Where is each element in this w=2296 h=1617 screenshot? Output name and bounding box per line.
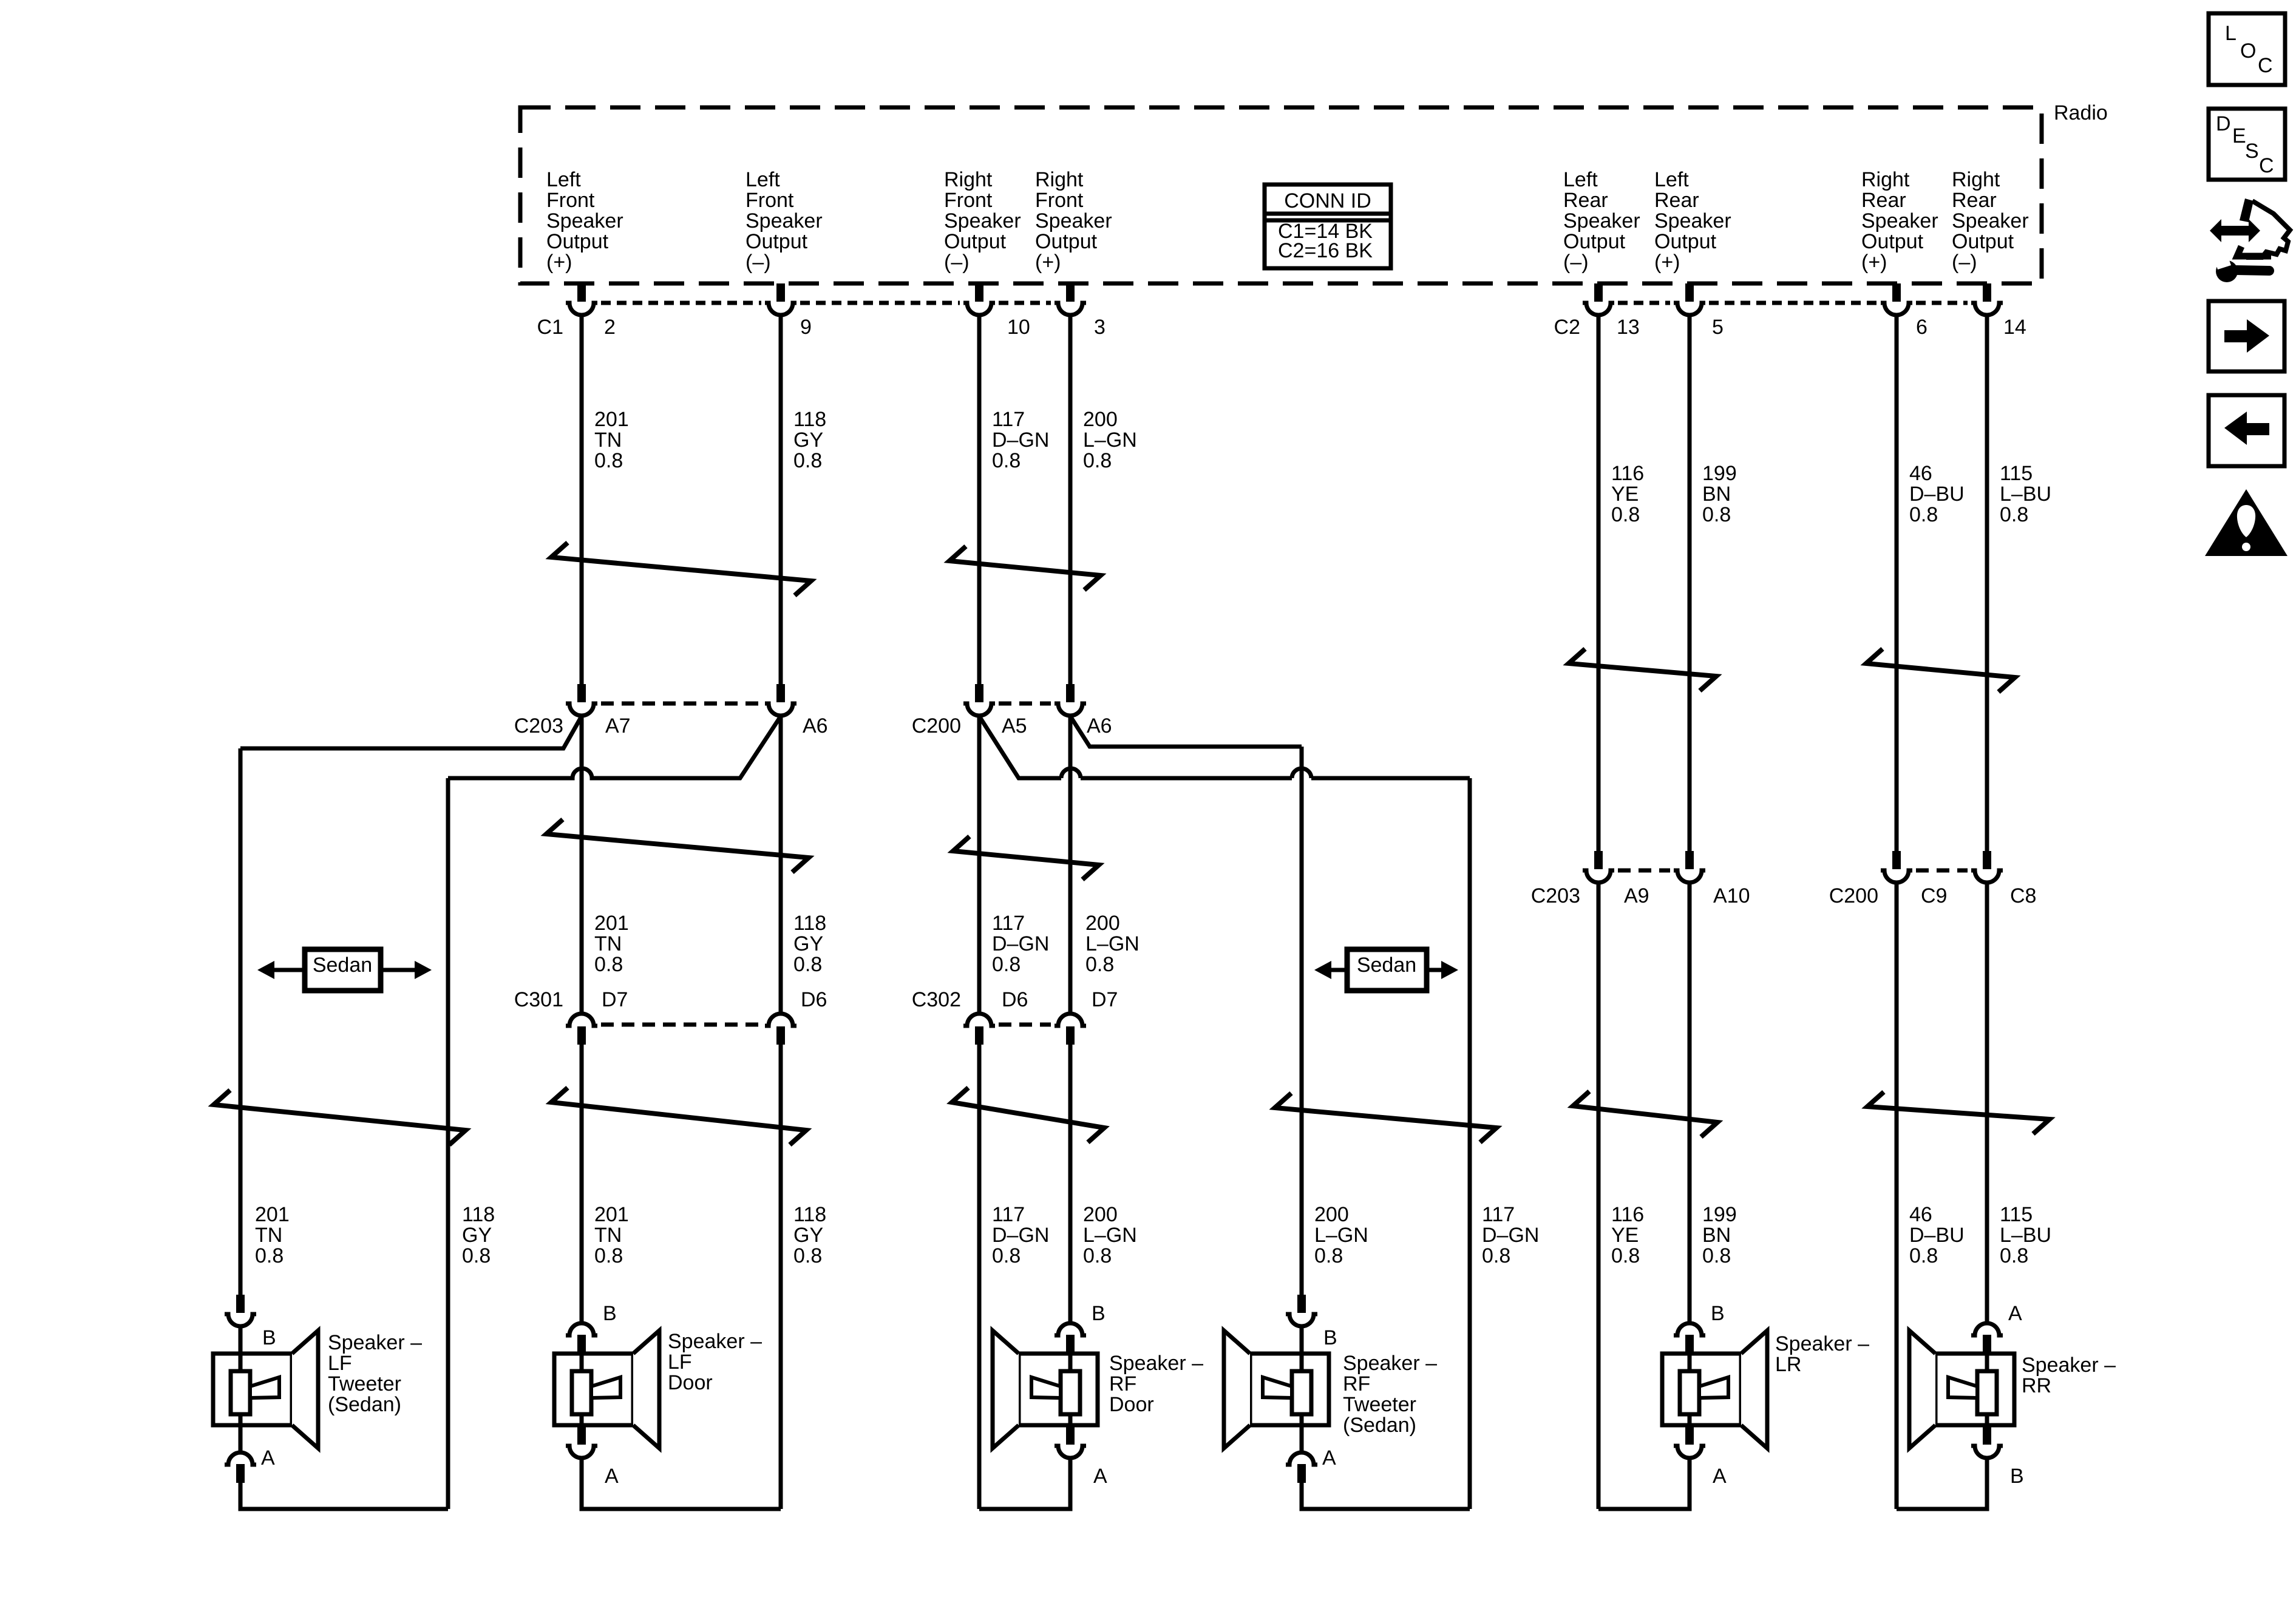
- branch wire 201 TN to LF tweeter: [240, 716, 582, 748]
- wire label 201 TN 0.8: [594, 1203, 629, 1267]
- svg-text:0.8: 0.8: [594, 953, 623, 976]
- svg-text:0.8: 0.8: [2000, 1244, 2028, 1267]
- svg-text:117: 117: [992, 408, 1025, 431]
- svg-text:0.8: 0.8: [1909, 503, 1938, 526]
- svg-text:Rear: Rear: [1861, 189, 1906, 212]
- wire label 201 TN 0.8: [255, 1203, 290, 1267]
- svg-text:0.8: 0.8: [793, 449, 822, 472]
- svg-text:E: E: [2232, 124, 2246, 147]
- wire label 118 GY 0.8: [793, 408, 826, 472]
- svg-text:Left: Left: [546, 168, 581, 191]
- svg-text:0.8: 0.8: [462, 1244, 491, 1267]
- svg-text:L–GN: L–GN: [1083, 1224, 1137, 1247]
- svg-text:L–GN: L–GN: [1085, 932, 1140, 955]
- svg-text:13: 13: [1617, 316, 1640, 339]
- svg-text:115: 115: [2000, 462, 2033, 485]
- svg-text:Speaker: Speaker: [1563, 209, 1640, 232]
- svg-text:C301: C301: [514, 988, 563, 1011]
- svg-text:Tweeter: Tweeter: [328, 1372, 401, 1395]
- label speaker LF Door: [668, 1330, 762, 1394]
- wire 199 BN from pin 5 to C203 A10: [1688, 316, 1692, 851]
- sedan right arrow: [381, 961, 432, 979]
- svg-text:A6: A6: [1087, 714, 1112, 737]
- svg-text:0.8: 0.8: [1702, 1244, 1731, 1267]
- connector C203 pin A9: [1583, 851, 1614, 883]
- svg-text:Sedan: Sedan: [313, 954, 372, 977]
- radio pin label Left Rear Speaker Output (+): [1654, 168, 1731, 274]
- icon warning triangle: [2205, 489, 2288, 556]
- sedan right arrow: [1427, 961, 1458, 979]
- svg-text:Speaker –: Speaker –: [1775, 1332, 1869, 1355]
- svg-text:Rear: Rear: [1654, 189, 1699, 212]
- svg-text:0.8: 0.8: [255, 1244, 284, 1267]
- harness break: [214, 1090, 466, 1145]
- svg-text:GY: GY: [462, 1224, 492, 1247]
- rear C200 dashed line: [1916, 869, 1968, 873]
- connector C200 pin C8: [1971, 851, 2003, 883]
- wire label 116 YE 0.8: [1611, 462, 1644, 526]
- svg-text:Left: Left: [1563, 168, 1598, 191]
- icon DESC box: [2209, 109, 2285, 180]
- svg-text:A: A: [261, 1446, 275, 1470]
- wire 118 GY from C203 to C301: [779, 716, 783, 1013]
- harness break: [1275, 1093, 1496, 1142]
- speaker RF Door: [993, 1302, 1107, 1509]
- svg-text:(–): (–): [746, 251, 771, 274]
- connector C302 pin D7: [1055, 1014, 1086, 1045]
- wire 117 D-GN from pin 10 to C200 A5: [977, 316, 982, 684]
- wire 200 L-GN from C302 to RF door speaker: [1068, 1045, 1073, 1321]
- svg-text:200: 200: [1314, 1203, 1349, 1226]
- wire label 200 L-GN 0.8: [1314, 1203, 1368, 1267]
- wire 117 D-GN from C302 down: [977, 1045, 982, 1509]
- harness break: [1866, 649, 2015, 692]
- svg-text:A: A: [605, 1465, 619, 1488]
- svg-text:0.8: 0.8: [1611, 503, 1640, 526]
- svg-text:Right: Right: [1861, 168, 1910, 191]
- svg-text:Output: Output: [1654, 230, 1717, 253]
- harness break: [551, 1088, 806, 1145]
- svg-text:(Sedan): (Sedan): [1343, 1414, 1416, 1437]
- Sedan callout middle: [1347, 949, 1427, 991]
- wire label 117 D-GN 0.8: [992, 912, 1049, 976]
- svg-text:TN: TN: [255, 1224, 282, 1247]
- svg-text:C8: C8: [2010, 884, 2036, 907]
- wire label 117 D-GN 0.8: [992, 1203, 1049, 1267]
- svg-text:A6: A6: [803, 714, 828, 737]
- harness break: [1569, 649, 1716, 691]
- wire label 115 L-BU 0.8: [2000, 462, 2051, 526]
- svg-text:Rear: Rear: [1563, 189, 1608, 212]
- svg-text:199: 199: [1702, 462, 1737, 485]
- speaker RF Tweeter (Sedan): [1224, 1295, 1337, 1509]
- svg-text:Front: Front: [546, 189, 595, 212]
- svg-text:Speaker –: Speaker –: [328, 1331, 422, 1354]
- svg-text:D6: D6: [1002, 988, 1028, 1011]
- wire loop RF door return: [979, 1459, 1070, 1509]
- connector C301 pin D6: [765, 1014, 796, 1045]
- wire label 115 L-BU 0.8: [2000, 1203, 2051, 1267]
- wire 200 L-GN from C200 to C302: [1068, 716, 1073, 1013]
- icon arrow left box: [2209, 395, 2284, 466]
- svg-text:D: D: [2216, 112, 2231, 135]
- svg-text:(+): (+): [1035, 251, 1061, 274]
- svg-text:Right: Right: [1035, 168, 1084, 191]
- svg-text:117: 117: [992, 1203, 1025, 1226]
- svg-text:D6: D6: [801, 988, 827, 1011]
- speaker LR: [1662, 1302, 1767, 1509]
- svg-text:118: 118: [793, 408, 826, 431]
- svg-text:B: B: [603, 1302, 617, 1325]
- svg-text:LF: LF: [668, 1351, 692, 1374]
- svg-text:B: B: [2010, 1465, 2024, 1488]
- svg-text:Front: Front: [1035, 189, 1084, 212]
- svg-text:(+): (+): [546, 251, 572, 274]
- branch wire 117 D-GN to RF tweeter return: [979, 716, 1470, 778]
- svg-text:RF: RF: [1109, 1372, 1136, 1395]
- svg-text:C200: C200: [1829, 884, 1878, 907]
- svg-text:Speaker: Speaker: [1861, 209, 1938, 232]
- svg-text:CONN ID: CONN ID: [1284, 189, 1371, 212]
- svg-text:A5: A5: [1002, 714, 1027, 737]
- wire 200 L-GN from pin 3 to C200 A6: [1068, 316, 1073, 684]
- svg-text:Output: Output: [1035, 230, 1098, 253]
- svg-text:117: 117: [1482, 1203, 1515, 1226]
- radio connector pin 2: [566, 283, 597, 315]
- svg-text:(Sedan): (Sedan): [328, 1393, 401, 1416]
- svg-text:A: A: [1713, 1465, 1727, 1488]
- rear C203 dashed line: [1618, 869, 1670, 873]
- svg-text:Right: Right: [944, 168, 993, 191]
- svg-text:0.8: 0.8: [594, 449, 623, 472]
- svg-text:Rear: Rear: [1952, 189, 1997, 212]
- sedan left arrow: [1314, 961, 1347, 979]
- wire label 117 D-GN 0.8: [992, 408, 1049, 472]
- wire label 46 D-BU 0.8: [1909, 1203, 1965, 1267]
- radio connector pin 5: [1674, 283, 1705, 315]
- harness break: [953, 836, 1099, 880]
- svg-text:Output: Output: [1952, 230, 2014, 253]
- svg-text:201: 201: [594, 408, 629, 431]
- connector C1 dashed line: [601, 301, 761, 305]
- connector C203 pin A6: [765, 684, 796, 716]
- wire 116 YE from C203 down: [1597, 883, 1601, 1509]
- icon harness repair (arrows and wrench): [2210, 198, 2290, 282]
- svg-text:Front: Front: [746, 189, 794, 212]
- svg-text:TN: TN: [594, 429, 622, 452]
- svg-text:6: 6: [1916, 316, 1927, 339]
- icon arrow right box: [2209, 301, 2284, 371]
- wire 201 TN down to LF tweeter: [239, 748, 243, 1295]
- wire 201 TN from C301 to LF door speaker: [580, 1045, 584, 1321]
- wire label 199 BN 0.8: [1702, 1203, 1737, 1267]
- svg-text:0.8: 0.8: [1482, 1244, 1510, 1267]
- svg-text:200: 200: [1085, 912, 1120, 935]
- svg-text:B: B: [1323, 1326, 1337, 1349]
- svg-text:46: 46: [1909, 462, 1932, 485]
- svg-text:0.8: 0.8: [2000, 503, 2028, 526]
- svg-text:0.8: 0.8: [1909, 1244, 1938, 1267]
- wire label 117 D-GN 0.8: [1482, 1203, 1539, 1267]
- svg-text:(–): (–): [944, 251, 970, 274]
- harness break: [949, 546, 1101, 590]
- wire 115 L-BU from pin 14 to C200 C8: [1985, 316, 1989, 851]
- label speaker RF Door: [1109, 1352, 1203, 1416]
- svg-text:BN: BN: [1702, 483, 1731, 506]
- svg-text:B: B: [1092, 1302, 1106, 1325]
- svg-text:Sedan: Sedan: [1357, 954, 1416, 977]
- svg-text:2: 2: [604, 316, 616, 339]
- wire label 201 TN 0.8: [594, 408, 629, 472]
- svg-text:Speaker –: Speaker –: [668, 1330, 762, 1353]
- svg-text:0.8: 0.8: [793, 953, 822, 976]
- svg-text:S: S: [2245, 140, 2259, 163]
- svg-text:Speaker –: Speaker –: [2022, 1354, 2116, 1377]
- svg-text:Radio: Radio: [2054, 101, 2108, 124]
- svg-text:L–BU: L–BU: [2000, 483, 2051, 506]
- svg-text:199: 199: [1702, 1203, 1737, 1226]
- svg-text:201: 201: [594, 1203, 629, 1226]
- wire label 199 BN 0.8: [1702, 462, 1737, 526]
- radio connector pin 3: [1055, 283, 1086, 315]
- svg-text:Output: Output: [546, 230, 609, 253]
- branch wire 118 GY to LF tweeter return: [448, 716, 781, 778]
- svg-text:Speaker: Speaker: [746, 209, 823, 232]
- sedan left arrow: [257, 961, 305, 979]
- wire label 118 GY 0.8: [793, 912, 826, 976]
- svg-text:O: O: [2240, 39, 2256, 63]
- C301 dashed line: [601, 1023, 761, 1027]
- svg-text:TN: TN: [594, 932, 622, 955]
- svg-text:C302: C302: [912, 988, 961, 1011]
- svg-text:D–BU: D–BU: [1909, 483, 1965, 506]
- svg-text:C200: C200: [912, 714, 961, 737]
- svg-text:A: A: [2008, 1302, 2022, 1325]
- svg-text:0.8: 0.8: [992, 953, 1021, 976]
- speaker LF Door: [554, 1302, 659, 1509]
- svg-text:0.8: 0.8: [992, 449, 1021, 472]
- svg-text:LR: LR: [1775, 1353, 1801, 1376]
- svg-text:10: 10: [1007, 316, 1030, 339]
- radio pin label Right Front Speaker Output (+): [1035, 168, 1112, 274]
- svg-text:0.8: 0.8: [1083, 449, 1112, 472]
- label speaker LF Tweeter (Sedan): [328, 1331, 422, 1416]
- svg-text:0.8: 0.8: [1611, 1244, 1640, 1267]
- svg-text:Speaker: Speaker: [1654, 209, 1731, 232]
- wire label 201 TN 0.8: [594, 912, 629, 976]
- svg-text:201: 201: [594, 912, 629, 935]
- svg-text:D7: D7: [1092, 988, 1118, 1011]
- icon LOC box: [2209, 13, 2285, 85]
- wire label 200 L-GN 0.8: [1083, 1203, 1137, 1267]
- svg-text:Output: Output: [944, 230, 1007, 253]
- svg-text:Output: Output: [1861, 230, 1924, 253]
- radio dashed box: [520, 107, 2042, 283]
- svg-text:BN: BN: [1702, 1224, 1731, 1247]
- radio pin label Left Front Speaker Output (–): [746, 168, 823, 274]
- svg-text:115: 115: [2000, 1203, 2033, 1226]
- svg-text:3: 3: [1094, 316, 1106, 339]
- svg-text:Speaker –: Speaker –: [1343, 1352, 1437, 1375]
- wire 200 L-GN down to RF tweeter: [1300, 747, 1304, 1295]
- svg-text:Speaker: Speaker: [1035, 209, 1112, 232]
- svg-text:0.8: 0.8: [992, 1244, 1021, 1267]
- speaker LF Tweeter (Sedan): [213, 1295, 318, 1509]
- wire loop RF tweeter return: [1302, 1483, 1470, 1509]
- wire label 118 GY 0.8: [793, 1203, 826, 1267]
- svg-text:Front: Front: [944, 189, 993, 212]
- svg-text:L–GN: L–GN: [1083, 429, 1137, 452]
- wire 201 TN from C203 to C301: [580, 716, 584, 1013]
- svg-text:Speaker –: Speaker –: [1109, 1352, 1203, 1375]
- connector C203 pin A10: [1674, 851, 1705, 883]
- svg-text:0.8: 0.8: [1085, 953, 1114, 976]
- wire 118 GY down left side: [446, 778, 450, 1509]
- svg-text:Door: Door: [1109, 1393, 1154, 1416]
- wire 201 TN from pin 2 to C203 A7: [580, 316, 584, 684]
- svg-text:D–GN: D–GN: [992, 429, 1049, 452]
- svg-text:0.8: 0.8: [793, 1244, 822, 1267]
- svg-text:A: A: [1093, 1465, 1107, 1488]
- svg-text:A9: A9: [1624, 884, 1649, 907]
- radio connector pin 6: [1881, 283, 1912, 315]
- radio connector pin 9: [765, 283, 796, 315]
- svg-text:(+): (+): [1861, 251, 1887, 274]
- svg-text:118: 118: [793, 1203, 826, 1226]
- harness break: [546, 819, 809, 872]
- radio connector pin 10: [963, 283, 995, 315]
- radio pin label Left Front Speaker Output (+): [546, 168, 623, 274]
- svg-text:Output: Output: [746, 230, 808, 253]
- radio pin label Right Front Speaker Output (–): [944, 168, 1021, 274]
- connector C200 pin C9: [1881, 851, 1912, 883]
- wire label 116 YE 0.8: [1611, 1203, 1644, 1267]
- svg-text:L–GN: L–GN: [1314, 1224, 1368, 1247]
- C302 dashed line: [999, 1023, 1051, 1027]
- C200 dashed line: [999, 702, 1051, 706]
- svg-text:Speaker: Speaker: [944, 209, 1021, 232]
- wire 118 GY from C301 down: [779, 1045, 783, 1509]
- svg-text:9: 9: [800, 316, 812, 339]
- svg-text:RF: RF: [1343, 1372, 1370, 1395]
- connector C200 pin A6: [1055, 684, 1086, 716]
- radio pin label Right Rear Speaker Output (+): [1861, 168, 1938, 274]
- svg-text:(–): (–): [1952, 251, 1977, 274]
- svg-text:Door: Door: [668, 1371, 713, 1394]
- svg-text:5: 5: [1712, 316, 1724, 339]
- svg-text:A7: A7: [605, 714, 631, 737]
- svg-text:Speaker: Speaker: [546, 209, 623, 232]
- svg-text:LF: LF: [328, 1352, 352, 1375]
- svg-text:Output: Output: [1563, 230, 1626, 253]
- svg-text:C2: C2: [1554, 316, 1580, 339]
- svg-text:116: 116: [1611, 1203, 1644, 1226]
- wire 46 D-BU from pin 6 to C200 C9: [1895, 316, 1899, 851]
- svg-text:200: 200: [1083, 1203, 1118, 1226]
- wire 116 YE from pin 13 to C203 A9: [1597, 316, 1601, 851]
- svg-text:118: 118: [462, 1203, 495, 1226]
- svg-text:C: C: [2258, 54, 2273, 77]
- svg-text:A10: A10: [1713, 884, 1750, 907]
- svg-text:(+): (+): [1654, 251, 1680, 274]
- label speaker LR: [1775, 1332, 1869, 1376]
- svg-text:118: 118: [793, 912, 826, 935]
- label speaker RF Tweeter (Sedan): [1343, 1352, 1437, 1437]
- wire hop over 200 L-GN: [1061, 768, 1081, 778]
- svg-text:D–BU: D–BU: [1909, 1224, 1965, 1247]
- wire loop LR return: [1598, 1459, 1690, 1509]
- svg-text:Tweeter: Tweeter: [1343, 1393, 1416, 1416]
- svg-text:0.8: 0.8: [1083, 1244, 1112, 1267]
- wire label 200 L-GN 0.8: [1085, 912, 1140, 976]
- CONN ID table: [1265, 185, 1391, 268]
- connector C2 dashed line: [1618, 301, 1670, 305]
- svg-text:D7: D7: [602, 988, 628, 1011]
- connector C302 pin D6: [963, 1014, 995, 1045]
- svg-text:GY: GY: [793, 1224, 823, 1247]
- svg-text:GY: GY: [793, 429, 823, 452]
- svg-text:C203: C203: [1531, 884, 1580, 907]
- label speaker RR: [2022, 1354, 2116, 1397]
- C203 dashed line: [601, 702, 761, 706]
- speaker RR: [1909, 1302, 2024, 1509]
- svg-text:D–GN: D–GN: [992, 932, 1049, 955]
- radio pin label Right Rear Speaker Output (–): [1952, 168, 2029, 274]
- svg-text:D–GN: D–GN: [992, 1224, 1049, 1247]
- wire 115 L-BU from C200 to RR speaker: [1985, 883, 1989, 1321]
- wire label 118 GY 0.8: [462, 1203, 495, 1267]
- radio pin label Left Rear Speaker Output (–): [1563, 168, 1640, 274]
- svg-text:B: B: [1711, 1302, 1725, 1325]
- wire loop LF tweeter return: [240, 1483, 448, 1509]
- connector C301 pin D7: [566, 1014, 597, 1045]
- connector C200 pin A5: [963, 684, 995, 716]
- svg-text:0.8: 0.8: [1702, 503, 1731, 526]
- Sedan callout left: [305, 949, 381, 991]
- wire 117 D-GN down right side: [1468, 778, 1472, 1509]
- svg-text:RR: RR: [2022, 1374, 2051, 1397]
- svg-text:Left: Left: [746, 168, 780, 191]
- svg-text:C2=16 BK: C2=16 BK: [1278, 239, 1373, 262]
- connector C203 pin A7: [566, 684, 597, 716]
- svg-text:201: 201: [255, 1203, 290, 1226]
- svg-text:L: L: [2225, 22, 2237, 45]
- svg-text:TN: TN: [594, 1224, 622, 1247]
- svg-text:46: 46: [1909, 1203, 1932, 1226]
- svg-text:Right: Right: [1952, 168, 2000, 191]
- svg-text:YE: YE: [1611, 483, 1639, 506]
- svg-text:Speaker: Speaker: [1952, 209, 2029, 232]
- svg-text:0.8: 0.8: [594, 1244, 623, 1267]
- svg-text:200: 200: [1083, 408, 1118, 431]
- svg-text:C1: C1: [537, 316, 563, 339]
- svg-text:14: 14: [2003, 316, 2026, 339]
- harness break: [1573, 1091, 1717, 1137]
- wire loop LF door return: [582, 1459, 781, 1509]
- branch wire 200 L-GN to RF tweeter: [1070, 716, 1302, 747]
- harness break: [551, 543, 811, 595]
- harness break: [952, 1088, 1104, 1142]
- wire label 200 L-GN 0.8: [1083, 408, 1137, 472]
- harness break: [1867, 1092, 2050, 1134]
- wire 118 GY from pin 9 to C203 A6: [779, 316, 783, 684]
- wire label 46 D-BU 0.8: [1909, 462, 1965, 526]
- svg-text:GY: GY: [793, 932, 823, 955]
- svg-text:C203: C203: [514, 714, 563, 737]
- svg-text:YE: YE: [1611, 1224, 1639, 1247]
- radio connector pin 14: [1971, 283, 2003, 315]
- svg-text:116: 116: [1611, 462, 1644, 485]
